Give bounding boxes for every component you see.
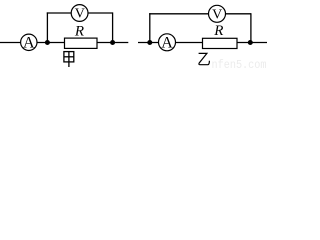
voltmeter V (right circuit) [209, 5, 226, 22]
wire: resistor to right lead [97, 42, 128, 44]
wire: resistor to right edge [237, 42, 267, 44]
junction dot (left node) [147, 40, 152, 45]
wire: top branch right segment [88, 12, 113, 14]
wire: top branch left segment [47, 12, 72, 14]
resistor R (left circuit) [65, 38, 98, 48]
svg-text:R: R [213, 23, 223, 39]
wire: vertical branch up to voltmeter (left) [46, 12, 48, 42]
wire: ammeter to resistor [176, 42, 203, 44]
label jia (Chinese) drawn as strokes [64, 52, 74, 67]
svg-text:V: V [212, 7, 222, 22]
wire: vertical branch down (right) [112, 12, 114, 42]
voltmeter V (left circuit) [71, 5, 88, 22]
svg-text:A: A [23, 35, 35, 52]
wire: vertical branch up (left) [149, 13, 151, 42]
wire: top branch left segment [149, 13, 208, 15]
svg-text:R: R [74, 24, 84, 40]
resistor R (right circuit) [203, 38, 238, 48]
junction dot (right node) [248, 40, 253, 45]
wire: ammeter to node, through junction [37, 42, 65, 44]
wire: left lead into ammeter A1 [0, 42, 21, 44]
wire: top branch right segment [226, 13, 251, 15]
ammeter A (left circuit) [21, 34, 37, 50]
wire: vertical branch down (right) [250, 13, 252, 42]
svg-text:A: A [161, 35, 173, 52]
svg-text:nfen5.com: nfen5.com [212, 59, 267, 70]
svg-text:V: V [75, 7, 85, 22]
junction dot (left node of R) [45, 40, 50, 45]
junction dot (right node of R) [110, 40, 115, 45]
ammeter A (right circuit) [159, 34, 176, 51]
wire: left lead [138, 42, 158, 44]
label yi (Chinese) drawn as strokes [199, 53, 210, 64]
